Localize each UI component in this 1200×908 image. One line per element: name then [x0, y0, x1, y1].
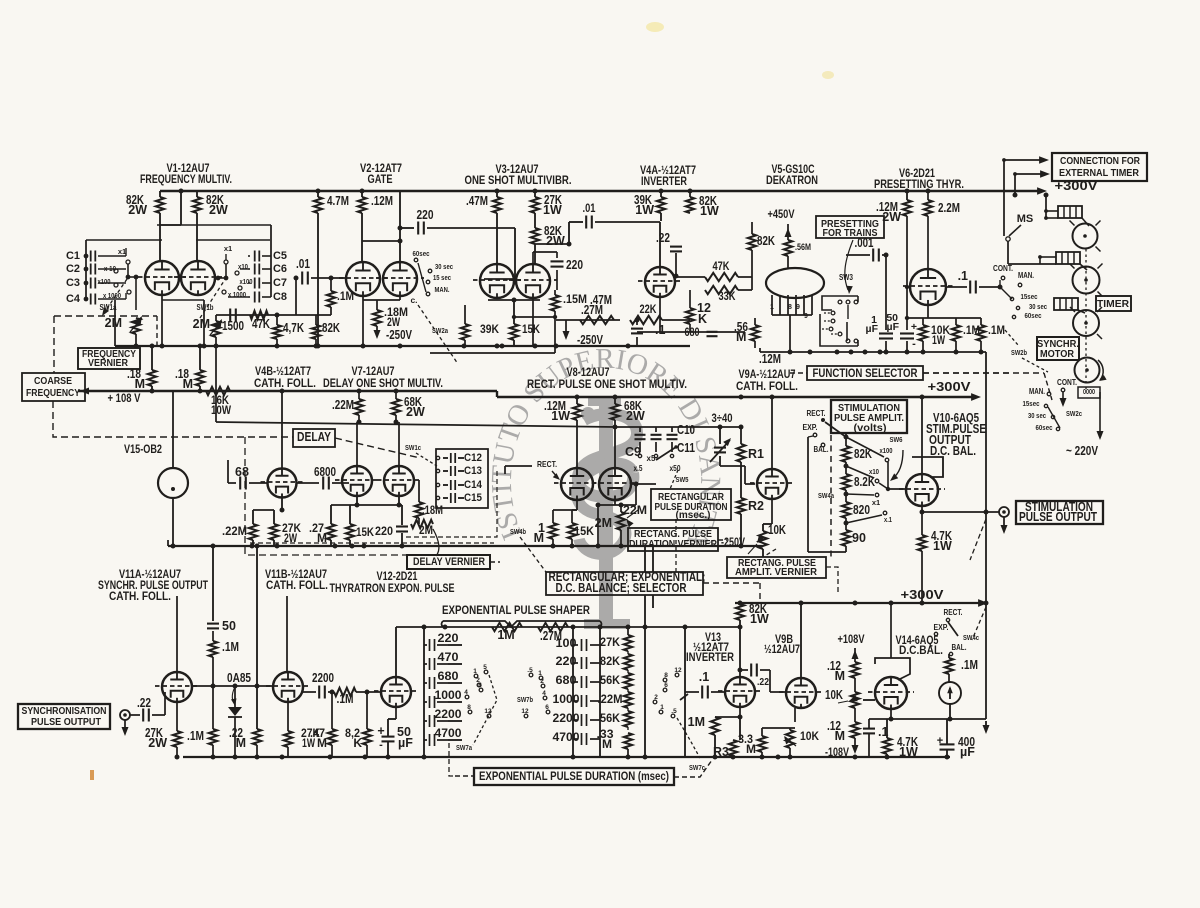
svg-text:GATE: GATE [368, 174, 393, 186]
svg-text:15K: 15K [356, 527, 375, 539]
svg-text:CONT.: CONT. [993, 264, 1013, 273]
svg-text:M: M [135, 377, 145, 391]
svg-text:12: 12 [521, 708, 529, 715]
svg-text:µF: µF [866, 323, 879, 335]
svg-text:M: M [534, 531, 544, 545]
svg-text:CONT.: CONT. [1057, 378, 1077, 387]
svg-text:10K: 10K [825, 688, 843, 702]
svg-text:C8: C8 [273, 291, 287, 303]
svg-text:15K: 15K [522, 322, 540, 336]
svg-text:.001: .001 [855, 236, 874, 250]
svg-text:SW4a: SW4a [818, 491, 835, 500]
svg-text:INVERTER: INVERTER [686, 652, 735, 664]
svg-text:V12-2D21: V12-2D21 [377, 571, 418, 583]
svg-text:D.C. BAL.: D.C. BAL. [930, 444, 976, 458]
svg-text:6: 6 [664, 682, 668, 689]
svg-text:+300V: +300V [901, 587, 944, 602]
svg-text:PRESETTING THYR.: PRESETTING THYR. [874, 179, 964, 191]
svg-text:2M: 2M [105, 316, 122, 330]
svg-text:.01: .01 [296, 257, 310, 271]
svg-text:6800: 6800 [314, 465, 336, 479]
svg-text:M: M [183, 377, 193, 391]
svg-text:M: M [602, 737, 612, 751]
svg-text:4,7K: 4,7K [283, 321, 304, 335]
svg-text:680: 680 [556, 673, 577, 687]
svg-text:9: 9 [796, 304, 800, 311]
svg-text:CATH. FOLL.: CATH. FOLL. [254, 378, 316, 390]
svg-text:x100: x100 [240, 277, 253, 286]
svg-text:2W: 2W [148, 736, 167, 750]
svg-text:DELAY VERNIER: DELAY VERNIER [413, 556, 485, 568]
svg-text:AMPLIT. VERNIER: AMPLIT. VERNIER [735, 566, 817, 578]
svg-text:R1: R1 [748, 447, 764, 461]
svg-text:90: 90 [852, 531, 866, 545]
svg-text:220: 220 [375, 526, 393, 538]
svg-text:2W: 2W [546, 234, 565, 248]
svg-text:12: 12 [674, 667, 682, 674]
svg-text:.12M: .12M [759, 352, 781, 366]
svg-text:PULSE OUTPUT: PULSE OUTPUT [31, 717, 101, 728]
svg-text:DELAY: DELAY [297, 430, 332, 444]
svg-text:SW4b: SW4b [510, 527, 526, 536]
svg-text:220: 220 [556, 654, 577, 668]
svg-text:SW7b: SW7b [517, 695, 533, 704]
svg-text:30 sec: 30 sec [435, 262, 453, 271]
svg-text:C13: C13 [464, 465, 482, 477]
svg-text:x10: x10 [869, 467, 879, 476]
svg-text:µF: µF [887, 321, 900, 333]
svg-text:+ 108 V: + 108 V [108, 391, 141, 405]
svg-text:1W: 1W [700, 204, 719, 218]
svg-text:4: 4 [464, 689, 468, 696]
svg-text:9: 9 [804, 313, 808, 320]
svg-text:15sec: 15sec [1023, 399, 1040, 408]
svg-text:2M: 2M [193, 317, 210, 331]
svg-text:.5: .5 [671, 708, 677, 715]
svg-text:0000: 0000 [1083, 389, 1095, 396]
svg-text:FUNCTION SELECTOR: FUNCTION SELECTOR [813, 366, 918, 380]
svg-text:SYNCHRONISATION: SYNCHRONISATION [22, 706, 107, 717]
svg-text:10W: 10W [211, 403, 232, 417]
svg-text:x1: x1 [224, 244, 232, 253]
svg-text:1W: 1W [551, 409, 570, 423]
svg-text:CONNECTION FOR: CONNECTION FOR [1060, 155, 1140, 167]
svg-text:x.5: x.5 [634, 464, 643, 473]
svg-text:8: 8 [788, 304, 792, 311]
svg-text:2W: 2W [882, 210, 901, 224]
svg-text:220: 220 [566, 258, 583, 272]
svg-text:M: M [317, 736, 327, 750]
svg-text:M: M [746, 742, 756, 756]
svg-text:82K: 82K [600, 654, 620, 668]
svg-text:C5: C5 [273, 250, 287, 262]
svg-text:-: - [379, 739, 383, 751]
svg-text:1000: 1000 [435, 688, 462, 702]
svg-text:D.C.BAL.: D.C.BAL. [899, 645, 943, 657]
svg-text:RECT. PULSE ONE SHOT MULTIV.: RECT. PULSE ONE SHOT MULTIV. [527, 379, 687, 391]
svg-text:2W: 2W [406, 405, 425, 419]
svg-text:2W: 2W [209, 203, 228, 217]
svg-text:10K: 10K [800, 729, 819, 743]
svg-text:M: M [317, 531, 327, 545]
svg-text:15 sec: 15 sec [433, 273, 451, 282]
svg-text:1: 1 [538, 670, 542, 677]
svg-text:-: - [912, 338, 916, 350]
svg-text:EXPONENTIAL PULSE DURATION (ms: EXPONENTIAL PULSE DURATION (msec) [479, 771, 669, 783]
svg-text:.1M: .1M [187, 729, 204, 743]
svg-text:.18M: .18M [422, 505, 443, 517]
svg-text:+300V: +300V [928, 379, 971, 394]
svg-text:680: 680 [438, 669, 459, 683]
svg-text:220: 220 [438, 631, 459, 645]
svg-text:TIMER: TIMER [1097, 298, 1129, 310]
svg-text:C3: C3 [66, 277, 80, 289]
svg-text:2W: 2W [626, 409, 645, 423]
svg-text:82K: 82K [322, 321, 340, 335]
svg-text:4700: 4700 [553, 730, 580, 744]
svg-text:VERNIER: VERNIER [88, 358, 129, 369]
svg-text:47K: 47K [252, 317, 270, 331]
svg-text:2: 2 [540, 678, 544, 685]
svg-text:C2: C2 [66, 263, 80, 275]
svg-text:30 sec: 30 sec [1029, 302, 1047, 311]
svg-text:30 sec: 30 sec [1028, 411, 1046, 420]
svg-text:3÷40: 3÷40 [712, 413, 733, 425]
svg-text:MAN.: MAN. [1029, 387, 1045, 396]
svg-text:C12: C12 [464, 452, 482, 464]
svg-text:.5: .5 [527, 667, 533, 674]
svg-text:10K: 10K [768, 523, 786, 537]
svg-text:680: 680 [685, 327, 700, 339]
svg-text:1: 1 [473, 668, 477, 675]
svg-text:C15: C15 [464, 492, 482, 504]
svg-text:x100: x100 [98, 277, 111, 286]
svg-text:-250V: -250V [386, 328, 413, 342]
svg-text:1W: 1W [543, 203, 562, 217]
svg-text:.12M: .12M [371, 194, 393, 208]
svg-text:1500: 1500 [222, 319, 244, 333]
svg-text:60sec: 60sec [413, 249, 430, 258]
svg-text:.1: .1 [699, 670, 709, 684]
svg-text:x50: x50 [670, 464, 681, 473]
svg-text:COARSE: COARSE [34, 376, 72, 387]
svg-text:1M: 1M [688, 715, 705, 729]
svg-text:60sec: 60sec [1025, 311, 1042, 320]
svg-text:D.C. BALANCE; SELECTOR: D.C. BALANCE; SELECTOR [556, 581, 687, 595]
svg-text:R2: R2 [748, 499, 764, 513]
svg-text:MAN.: MAN. [1018, 271, 1034, 280]
svg-text:5: 5 [483, 664, 487, 671]
svg-text:DEKATRON: DEKATRON [766, 175, 818, 187]
svg-text:.1M: .1M [222, 640, 239, 654]
svg-text:4: 4 [542, 690, 546, 697]
svg-text:C7: C7 [273, 277, 287, 289]
svg-text:C11: C11 [677, 441, 695, 455]
svg-text:4700: 4700 [435, 726, 462, 740]
svg-text:SW1c: SW1c [405, 443, 421, 452]
svg-text:.1M: .1M [337, 692, 354, 706]
svg-text:8: 8 [664, 672, 668, 679]
svg-text:.22M: .22M [222, 524, 247, 538]
svg-text:M: M [835, 729, 845, 743]
svg-text:60sec: 60sec [1036, 423, 1053, 432]
svg-text:SW2b: SW2b [1011, 348, 1027, 357]
svg-text:220: 220 [417, 208, 434, 222]
svg-text:1000: 1000 [553, 692, 580, 706]
svg-text:EXP.: EXP. [934, 623, 949, 632]
svg-text:CATH. FOLL.: CATH. FOLL. [109, 591, 171, 603]
svg-text:2: 2 [654, 694, 658, 701]
svg-text:INVERTER: INVERTER [641, 176, 688, 188]
svg-text:2W: 2W [284, 531, 297, 545]
svg-text:DELAY ONE SHOT MULTIV.: DELAY ONE SHOT MULTIV. [323, 378, 443, 390]
svg-text:FREQUENCY: FREQUENCY [26, 388, 80, 399]
svg-text:1W: 1W [635, 203, 654, 217]
svg-text:+108V: +108V [838, 634, 865, 646]
svg-text:x1: x1 [118, 247, 126, 256]
svg-text:BAL.: BAL. [952, 643, 967, 652]
svg-text:(volts): (volts) [854, 422, 887, 434]
svg-text:MS: MS [1017, 213, 1034, 225]
svg-text:FREQUENCY MULTIV.: FREQUENCY MULTIV. [140, 174, 232, 186]
svg-text:MAN.: MAN. [435, 285, 450, 294]
svg-text:-250V: -250V [577, 333, 604, 347]
svg-text:+: + [911, 321, 917, 333]
svg-text:1: 1 [770, 304, 774, 311]
svg-text:x100: x100 [880, 446, 893, 455]
svg-text:CATH. FOLL.: CATH. FOLL. [266, 580, 328, 592]
svg-text:M: M [835, 669, 845, 683]
svg-text:V15-OB2: V15-OB2 [124, 444, 162, 456]
svg-text:1W: 1W [932, 335, 945, 347]
svg-text:µF: µF [398, 736, 413, 750]
svg-text:33K: 33K [719, 291, 737, 303]
svg-text:RECT.: RECT. [807, 409, 826, 418]
svg-text:EXP.: EXP. [803, 423, 818, 432]
svg-text:C14: C14 [464, 479, 483, 491]
svg-text:K: K [353, 736, 362, 750]
svg-text:.22M: .22M [332, 398, 354, 412]
svg-text:2200: 2200 [312, 671, 334, 685]
svg-text:x1: x1 [872, 498, 880, 507]
svg-text:.56M: .56M [795, 242, 811, 252]
svg-text:82K: 82K [757, 234, 775, 248]
svg-text:V9A-½12AU7: V9A-½12AU7 [739, 369, 796, 381]
svg-text:.47M: .47M [466, 194, 488, 208]
svg-text:c.: c. [410, 295, 417, 305]
svg-text:68: 68 [235, 465, 249, 479]
svg-text:39K: 39K [480, 322, 499, 336]
svg-text:470: 470 [438, 650, 459, 664]
svg-text:50: 50 [222, 619, 236, 633]
svg-text:EXPONENTIAL PULSE SHAPER: EXPONENTIAL PULSE SHAPER [442, 605, 591, 617]
svg-text:~ 220V: ~ 220V [1066, 444, 1099, 458]
svg-text:.1M: .1M [337, 291, 354, 303]
svg-text:100: 100 [556, 636, 577, 650]
svg-text:15K: 15K [574, 524, 594, 538]
svg-text:µF: µF [960, 745, 975, 759]
svg-text:RECT.: RECT. [944, 608, 963, 617]
svg-text:C1: C1 [66, 250, 80, 262]
svg-text:.1M: .1M [988, 325, 1005, 337]
svg-text:SW2a: SW2a [432, 326, 449, 335]
svg-text:8: 8 [467, 704, 471, 711]
svg-text:0A85: 0A85 [227, 671, 251, 685]
svg-text:2W: 2W [128, 203, 147, 217]
svg-text:DURATION VERNIER: DURATION VERNIER [629, 538, 717, 550]
svg-text:.01: .01 [583, 203, 596, 215]
svg-text:15sec: 15sec [1021, 292, 1038, 301]
svg-text:47K: 47K [713, 261, 731, 273]
svg-text:SW3: SW3 [839, 273, 853, 282]
svg-text:SW5: SW5 [676, 475, 689, 484]
svg-text:MOTOR: MOTOR [1040, 348, 1074, 360]
svg-text:C4: C4 [66, 293, 81, 305]
svg-text:SW6: SW6 [890, 435, 903, 444]
svg-text:.22: .22 [656, 231, 670, 245]
svg-text:6: 6 [478, 682, 482, 689]
svg-text:M: M [236, 736, 246, 750]
svg-text:C6: C6 [273, 263, 287, 275]
svg-text:C10: C10 [677, 423, 695, 437]
svg-text:+450V: +450V [768, 209, 795, 221]
svg-text:56K: 56K [600, 673, 620, 687]
svg-text:½12AU7: ½12AU7 [764, 644, 800, 656]
svg-text:2M: 2M [419, 525, 433, 537]
svg-text:.22: .22 [757, 676, 769, 688]
svg-text:ONE SHOT MULTIVIBR.: ONE SHOT MULTIVIBR. [465, 175, 572, 187]
svg-text:2.2M: 2.2M [938, 201, 960, 215]
svg-text:.1M: .1M [961, 658, 978, 672]
svg-text:1W: 1W [933, 539, 952, 553]
svg-text:SW2c: SW2c [1066, 409, 1082, 418]
svg-text:SW4c: SW4c [963, 633, 979, 642]
svg-text:SW7c: SW7c [689, 763, 705, 772]
svg-text:V7-12AU7: V7-12AU7 [352, 366, 395, 378]
svg-text:.1: .1 [958, 269, 968, 283]
svg-text:RECT.: RECT. [537, 459, 557, 469]
svg-text:M: M [736, 330, 746, 344]
svg-text:27K: 27K [600, 635, 620, 649]
svg-text:1: 1 [660, 704, 664, 711]
svg-text:4.7M: 4.7M [327, 194, 349, 208]
svg-text:CATH. FOLL.: CATH. FOLL. [736, 381, 798, 393]
svg-text:EXTERNAL TIMER: EXTERNAL TIMER [1059, 167, 1139, 179]
svg-text:K: K [698, 312, 707, 326]
svg-text:SW7a: SW7a [456, 743, 473, 752]
svg-text:22K: 22K [640, 304, 658, 316]
svg-text:.22: .22 [137, 696, 151, 710]
svg-text:.22M: .22M [598, 692, 623, 706]
svg-text:THYRATRON EXPON. PULSE: THYRATRON EXPON. PULSE [330, 583, 455, 595]
svg-text:820: 820 [853, 503, 870, 517]
svg-text:56K: 56K [600, 711, 620, 725]
svg-text:6: 6 [545, 704, 549, 711]
svg-text:x.1: x.1 [884, 515, 892, 524]
svg-text:2200: 2200 [435, 707, 462, 721]
svg-text:V8-12AU7: V8-12AU7 [567, 367, 610, 379]
svg-text:(msec.): (msec.) [676, 509, 711, 521]
svg-text:V4B-½12AT7: V4B-½12AT7 [255, 366, 311, 378]
svg-text:1W: 1W [750, 612, 769, 626]
svg-text:PULSE OUTPUT: PULSE OUTPUT [1019, 510, 1097, 524]
svg-text:2200: 2200 [553, 711, 580, 725]
svg-text:1M: 1M [497, 628, 514, 642]
